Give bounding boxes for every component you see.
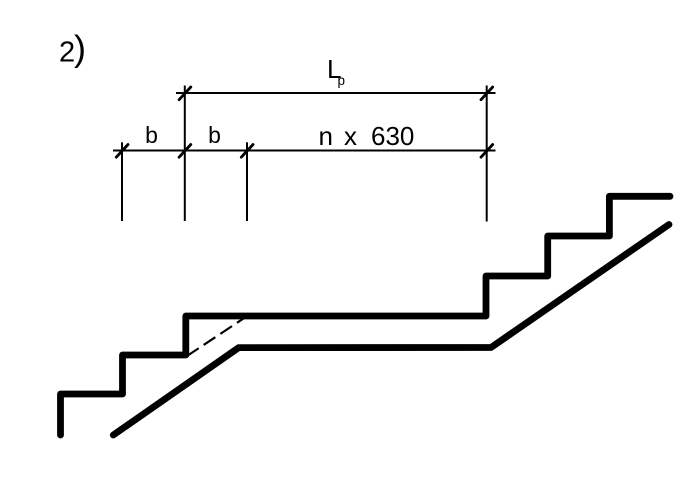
svg-text:2: 2 (59, 37, 75, 69)
svg-text:p: p (338, 73, 346, 88)
svg-text:b: b (145, 122, 158, 148)
svg-text:630: 630 (371, 121, 414, 151)
svg-text:n: n (319, 121, 333, 151)
svg-text:b: b (208, 122, 221, 148)
svg-text:x: x (344, 121, 357, 151)
svg-text:): ) (74, 27, 86, 68)
